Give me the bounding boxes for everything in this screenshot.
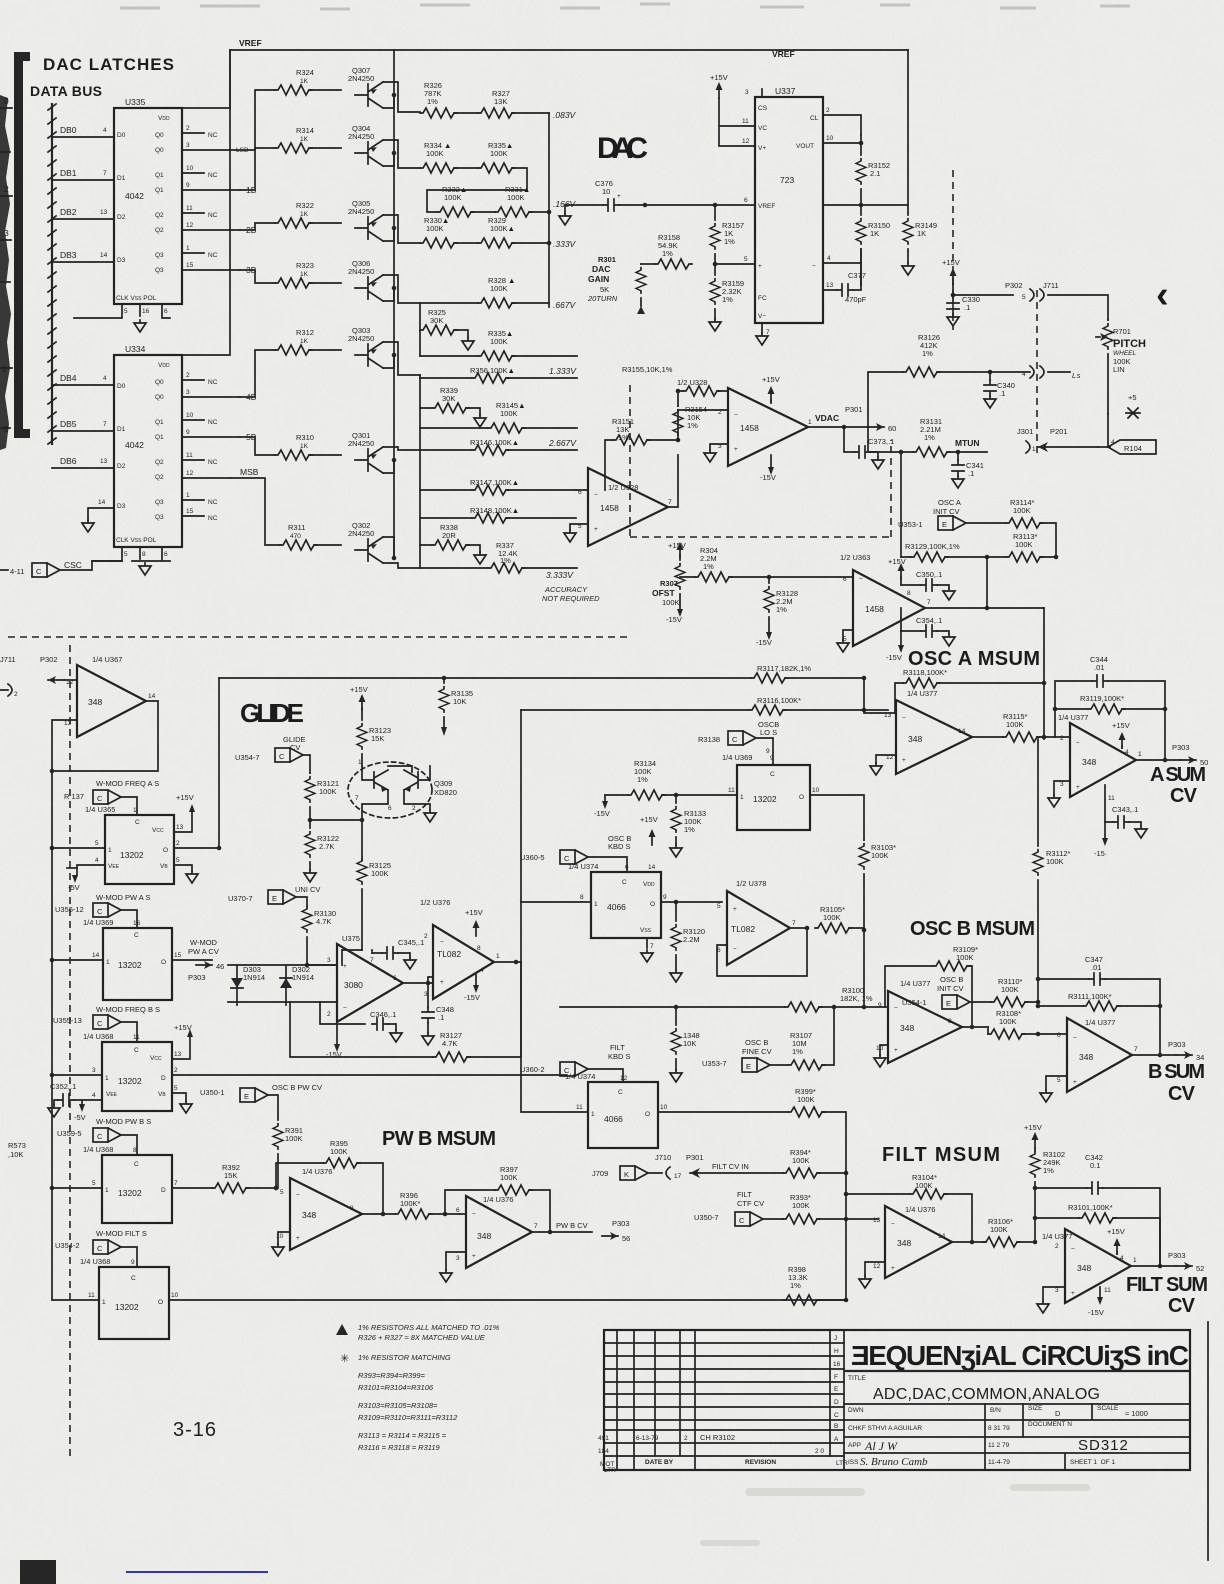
svg-text:R322: R322 [296, 201, 314, 210]
svg-text:1/4 U377: 1/4 U377 [1058, 713, 1088, 722]
wire U377d plus gnd [1043, 1287, 1065, 1301]
svg-text:TL082: TL082 [437, 949, 461, 959]
wire U376c out [952, 1241, 986, 1243]
capacitor C340 [989, 372, 991, 380]
svg-text:1: 1 [594, 901, 598, 908]
svg-text:SIZE: SIZE [1028, 1405, 1043, 1412]
wire oscb pw [268, 1095, 278, 1120]
svg-text:1: 1 [102, 1299, 106, 1306]
svg-text:D0: D0 [117, 383, 126, 390]
wire to P302 5 [953, 294, 1013, 296]
svg-text:13202: 13202 [118, 1076, 142, 1086]
svg-text:1: 1 [2, 364, 7, 374]
svg-text:D1: D1 [117, 175, 126, 182]
svg-text:Al J W: Al J W [864, 1439, 898, 1453]
svg-text:5: 5 [280, 1189, 284, 1196]
revision table [604, 1330, 844, 1470]
svg-text:6: 6 [744, 197, 748, 204]
wire C376 to VREF pin [619, 204, 715, 206]
svg-text:D1: D1 [117, 426, 126, 433]
resistor R3145A 100K [488, 423, 525, 433]
svg-text:2 0: 2 0 [815, 1448, 824, 1455]
svg-text:NC: NC [208, 252, 218, 259]
svg-text:20R: 20R [442, 531, 456, 540]
svg-text:R104: R104 [1124, 444, 1142, 453]
capacitor C341 [957, 452, 959, 460]
resistor R328A 100K [478, 298, 515, 308]
svg-text:B SUM: B SUM [1148, 1061, 1205, 1083]
resistor R3131 2.21M 1% [913, 447, 950, 457]
dashed connector lines [1036, 290, 1038, 455]
svg-text:U354-2: U354-2 [55, 1241, 80, 1250]
svg-text:12: 12 [873, 1263, 881, 1270]
op-amp U376a [290, 1178, 362, 1250]
svg-text:5: 5 [1022, 294, 1026, 301]
svg-text:2: 2 [186, 372, 190, 379]
wire Q304 emitter [383, 140, 420, 168]
capacitor C330 [947, 298, 959, 314]
svg-text:P201: P201 [1050, 427, 1068, 436]
svg-text:VDD: VDD [158, 362, 170, 369]
wire VOUT pin10 [823, 135, 861, 143]
svg-text:VEE: VEE [108, 863, 120, 870]
resistor R3151 13K 1% [613, 435, 650, 445]
svg-text:6: 6 [843, 576, 847, 583]
wire Q306 collector [383, 288, 394, 301]
wire R3103 node down [863, 930, 865, 1007]
svg-text:+: + [734, 446, 738, 453]
resistor R3118 100K [903, 678, 940, 688]
resistor R339 30K bridge [432, 403, 469, 413]
ground R3159 [709, 319, 721, 331]
svg-text:U370-7: U370-7 [228, 894, 253, 903]
svg-text:R3148,100K▲: R3148,100K▲ [470, 506, 519, 515]
wire U378 feedback [717, 928, 807, 976]
svg-text:INIT CV: INIT CV [937, 984, 964, 993]
svg-text:100K: 100K [871, 851, 889, 860]
wire VDAC out [808, 426, 868, 428]
svg-text:NC: NC [208, 499, 218, 506]
resistor R334A 100K [420, 163, 457, 173]
svg-text:J711: J711 [1043, 281, 1059, 290]
svg-text:2: 2 [684, 1435, 688, 1442]
resistor R3105 100K [815, 923, 852, 933]
svg-text:100K: 100K [500, 1173, 518, 1182]
resistor R3123 15K [357, 724, 367, 750]
svg-text:R324: R324 [296, 68, 314, 77]
wire + pin [715, 263, 755, 265]
svg-text:11: 11 [728, 787, 735, 794]
wire U377e in [1038, 1033, 1067, 1035]
svg-text:P303: P303 [188, 973, 206, 982]
svg-text:1%: 1% [427, 97, 438, 106]
svg-text:7: 7 [103, 421, 107, 428]
svg-text:-15V: -15V [756, 638, 772, 647]
svg-text:7: 7 [668, 499, 672, 506]
svg-text:FILT CV IN: FILT CV IN [712, 1162, 749, 1171]
svg-text:11: 11 [1104, 1287, 1111, 1294]
svg-text:B: B [834, 1423, 838, 1430]
svg-text:1%: 1% [687, 421, 698, 430]
svg-text:DB5: DB5 [60, 419, 77, 429]
transistor Q301 [355, 447, 383, 473]
svg-text:+15V: +15V [942, 258, 960, 267]
svg-text:.667V: .667V [553, 300, 577, 310]
svg-text:2: 2 [176, 840, 180, 847]
transistor pair Q309 XD820 [348, 762, 432, 818]
resistor R701 PITCH wheel [1103, 324, 1113, 350]
svg-text:APP: APP [848, 1442, 861, 1449]
resistor R399 100K [788, 1107, 825, 1117]
svg-text:0.1: 0.1 [1090, 1161, 1100, 1170]
wire Q307 emitter to ladder [383, 82, 420, 112]
power -15V C346 [336, 1024, 338, 1044]
wire U365 out to glide [174, 847, 219, 849]
svg-text:ADC,DAC,COMMON,ANALOG: ADC,DAC,COMMON,ANALOG [873, 1386, 1100, 1403]
summing column [548, 113, 550, 307]
svg-text:100K: 100K [792, 1201, 810, 1210]
resistor R3154 10K 1% [673, 410, 683, 436]
wire R3100 to pin9 [887, 1006, 889, 1008]
svg-text:W-MOD: W-MOD [190, 938, 218, 947]
svg-text:DB1: DB1 [60, 168, 77, 178]
svg-text:Q0: Q0 [155, 379, 164, 386]
svg-text:C: C [131, 1275, 136, 1282]
svg-text:2.2M: 2.2M [683, 935, 700, 944]
svg-text:+: + [1073, 1079, 1077, 1086]
svg-text:1: 1 [1133, 1257, 1137, 1264]
svg-text:U356-12: U356-12 [55, 905, 84, 914]
svg-text:11 2 79: 11 2 79 [988, 1442, 1010, 1449]
svg-text:3-16: 3-16 [173, 1419, 217, 1441]
top edge smudges [120, 4, 1130, 9]
svg-text:DATA BUS: DATA BUS [30, 83, 102, 99]
svg-text:.1: .1 [968, 469, 974, 478]
svg-text:2.667V: 2.667V [548, 438, 577, 448]
svg-text:FINE CV: FINE CV [742, 1047, 772, 1056]
svg-text:VB: VB [158, 1091, 166, 1098]
svg-text:2: 2 [1055, 1243, 1059, 1250]
capacitor C348 [422, 1007, 434, 1023]
svg-text:R3111,100K*: R3111,100K* [1068, 992, 1112, 1001]
svg-text:4-11: 4-11 [10, 567, 24, 576]
svg-text:1K: 1K [917, 229, 926, 238]
resistor R329 100KA [478, 238, 515, 248]
wire U376b out [532, 1231, 592, 1233]
svg-text:13: 13 [826, 282, 834, 289]
svg-text:10: 10 [186, 165, 194, 172]
op-amp U378 TL082 [727, 891, 790, 965]
svg-text:NC: NC [208, 515, 218, 522]
svg-text:1%: 1% [792, 1047, 803, 1056]
svg-text:6: 6 [625, 864, 629, 871]
svg-text:11: 11 [186, 205, 193, 212]
svg-text:8 31 79: 8 31 79 [988, 1425, 1010, 1432]
svg-text:348: 348 [897, 1238, 911, 1248]
wire U366 in pin14 [52, 959, 103, 961]
IC U368c 13202 [99, 1267, 169, 1339]
svg-text:P302: P302 [1005, 281, 1023, 290]
svg-text:100K: 100K [915, 1181, 933, 1190]
svg-text:4: 4 [1125, 749, 1129, 756]
resistor R3148 100KA [472, 513, 509, 523]
resistor R3150 1K [856, 219, 866, 245]
svg-text:13202: 13202 [115, 1302, 139, 1312]
svg-text:E: E [834, 1386, 839, 1393]
transistor Q304 [355, 140, 383, 166]
svg-text:GAIN: GAIN [588, 274, 609, 284]
svg-text:+: + [1076, 784, 1080, 791]
svg-text:1/4 U369: 1/4 U369 [83, 918, 113, 927]
long rail to OSCB stage [560, 1006, 785, 1008]
svg-text:11: 11 [742, 118, 749, 125]
svg-text:11: 11 [88, 1292, 95, 1299]
op-amp U328b VDAC stage [728, 388, 808, 466]
wire LSB to R324 [230, 90, 275, 150]
resistor R3129 100K 1% [911, 552, 948, 562]
svg-text:348: 348 [477, 1231, 491, 1241]
svg-text:348: 348 [1077, 1263, 1091, 1273]
glide box wire [218, 678, 220, 848]
wire C376 left + ground [565, 205, 603, 213]
svg-text:4.7K: 4.7K [442, 1039, 457, 1048]
svg-text:GLIDE: GLIDE [240, 698, 304, 728]
svg-text:FILT: FILT [610, 1043, 625, 1052]
svg-text:+15V: +15V [174, 1023, 192, 1032]
svg-text:100K: 100K [490, 337, 508, 346]
wire U368a out long rail [172, 1074, 566, 1076]
svg-text:1%: 1% [684, 825, 695, 834]
svg-text:6: 6 [1057, 1032, 1061, 1039]
wire Q302 collector [383, 537, 394, 558]
title block frame [604, 1330, 1190, 1470]
svg-text:R3113 = R3114 = R3115 =: R3113 = R3114 = R3115 = [358, 1431, 447, 1440]
svg-text:REVISION: REVISION [745, 1459, 776, 1466]
wheel symbol [1126, 408, 1140, 418]
svg-text:1K: 1K [300, 443, 309, 450]
svg-text:DAC LATCHES: DAC LATCHES [43, 55, 175, 74]
svg-text:10: 10 [660, 1104, 668, 1111]
svg-text:Q3: Q3 [155, 252, 164, 259]
svg-text:16: 16 [133, 920, 141, 927]
svg-text:15: 15 [174, 952, 182, 959]
svg-text:+: + [902, 757, 906, 764]
svg-text:13202: 13202 [118, 960, 142, 970]
collector bus [393, 50, 395, 558]
svg-text:1/4 U377: 1/4 U377 [1085, 1018, 1115, 1027]
wire U377d out [1131, 1265, 1176, 1267]
transistor Q307 [355, 82, 383, 108]
svg-text:Q0: Q0 [155, 394, 164, 401]
svg-text:15: 15 [186, 262, 194, 269]
resistor R332A 100K [437, 207, 474, 217]
svg-text:10: 10 [602, 187, 610, 196]
data bus (hatched) [51, 103, 53, 445]
svg-text:Q1: Q1 [155, 434, 164, 441]
svg-text:B/N: B/N [990, 1407, 1001, 1414]
wire Q307 collector [383, 95, 394, 108]
svg-text:Q1: Q1 [155, 172, 164, 179]
power -15V U377c [1104, 822, 1106, 838]
resistor R3113 100K [1006, 552, 1043, 562]
svg-text:−: − [891, 1221, 895, 1228]
svg-text:PW B MSUM: PW B MSUM [382, 1128, 496, 1150]
wire U365 in pin5 [52, 847, 105, 849]
wire 723 pin4 [823, 262, 861, 264]
svg-text:Q2: Q2 [155, 212, 164, 219]
svg-text:NOT REQUIRED: NOT REQUIRED [542, 594, 600, 603]
svg-text:INIT CV: INIT CV [933, 507, 960, 516]
svg-text:1K: 1K [300, 211, 309, 218]
svg-text:7: 7 [927, 599, 931, 606]
wire DB5 [52, 430, 114, 432]
svg-text:R312: R312 [296, 328, 314, 337]
svg-text:F: F [834, 1374, 838, 1381]
svg-text:100K: 100K [330, 1147, 348, 1156]
svg-text:2N4250: 2N4250 [348, 207, 374, 216]
svg-text:A: A [834, 1436, 839, 1443]
svg-text:−: − [343, 1005, 347, 1012]
svg-text:−: − [440, 939, 444, 946]
svg-text:VREF: VREF [239, 38, 262, 48]
svg-text:R393=R394=R399=: R393=R394=R399= [358, 1371, 426, 1380]
svg-text:VC: VC [758, 125, 767, 132]
wire U377c plus gnd [1054, 781, 1070, 795]
svg-text:P303: P303 [1172, 743, 1190, 752]
svg-text:3: 3 [424, 991, 428, 998]
resistor R3159 2.32K 1% [710, 279, 720, 305]
wire VREF pin6 [715, 204, 755, 206]
svg-text:W-MOD PW B S: W-MOD PW B S [96, 1117, 151, 1126]
svg-text:OSC B: OSC B [940, 975, 963, 984]
svg-text:CV: CV [1170, 785, 1198, 807]
svg-text:13: 13 [176, 824, 184, 831]
wire Q301 collector [383, 460, 394, 473]
svg-text:R323: R323 [296, 261, 314, 270]
svg-text:11: 11 [186, 452, 193, 459]
svg-text:14: 14 [98, 499, 106, 506]
wire U368c in pin11 [52, 1299, 99, 1301]
svg-text:2: 2 [14, 691, 18, 698]
svg-text:7: 7 [103, 170, 107, 177]
svg-text:U375: U375 [342, 934, 360, 943]
svg-text:1N914: 1N914 [243, 973, 265, 982]
svg-text:O: O [161, 959, 166, 966]
svg-text:1% RESISTOR MATCHING: 1% RESISTOR MATCHING [358, 1353, 451, 1362]
wire 2B to R322 [240, 223, 275, 230]
svg-text:−: − [1073, 1035, 1077, 1042]
svg-text:723: 723 [780, 175, 794, 185]
input CSC [0, 569, 8, 571]
ground R339 [474, 415, 486, 427]
svg-text:+15V: +15V [1112, 721, 1130, 730]
svg-text:R 137: R 137 [64, 792, 84, 801]
svg-text:-5V: -5V [68, 883, 80, 892]
wire R701 bottom to P201 [1107, 414, 1109, 447]
svg-text:7: 7 [792, 920, 796, 927]
svg-text:R3109=R3110=R3111=R3112: R3109=R3110=R3111=R3112 [358, 1413, 458, 1422]
svg-text:NC: NC [208, 379, 218, 386]
svg-text:+: + [1071, 1290, 1075, 1297]
svg-text:OSC A MSUM: OSC A MSUM [908, 648, 1040, 670]
svg-text:U359-5: U359-5 [57, 1129, 82, 1138]
resistor R3135 10K [442, 676, 447, 681]
resistor R3117 182K 1% [751, 673, 788, 683]
wire U376a plus gnd [278, 1232, 290, 1244]
wire U368b out [172, 1187, 212, 1189]
svg-text:1/4 U369: 1/4 U369 [722, 753, 752, 762]
U334 NC stubs [182, 380, 204, 516]
op-amp U375 3080 [337, 944, 403, 1022]
wire CSC to U334 [60, 561, 122, 570]
wire U377a in [864, 710, 896, 763]
svg-text:1%: 1% [924, 433, 935, 442]
svg-text:2N4250: 2N4250 [348, 529, 374, 538]
svg-text:V+: V+ [758, 145, 766, 152]
svg-text:‹: ‹ [1156, 274, 1169, 316]
svg-text:UNI CV: UNI CV [295, 885, 320, 894]
resistor R3122 2.7K [305, 832, 315, 858]
svg-text:100K: 100K [371, 869, 389, 878]
wire U369 in pin11 [736, 794, 738, 796]
svg-text:3: 3 [327, 957, 331, 964]
wire Q303 collector [383, 355, 394, 368]
svg-text:.01: .01 [1094, 663, 1104, 672]
resistor R324 1K [275, 85, 312, 95]
svg-text:C: C [135, 819, 140, 826]
svg-text:4: 4 [827, 255, 831, 262]
svg-text:Q2: Q2 [155, 474, 164, 481]
svg-text:470: 470 [290, 533, 301, 540]
svg-text:D2: D2 [117, 463, 126, 470]
svg-text:VCC: VCC [152, 827, 164, 834]
capacitor C373 [844, 427, 854, 452]
svg-text:NC: NC [208, 459, 218, 466]
svg-text:+: + [894, 1047, 898, 1054]
resistor R3146 100KA [472, 445, 509, 455]
wire 3080 inputs [307, 965, 337, 1002]
wire DB1 [52, 179, 114, 181]
svg-text:1: 1 [1138, 751, 1142, 758]
svg-text:1/4 U368: 1/4 U368 [83, 1032, 113, 1041]
svg-text:56: 56 [622, 1234, 630, 1243]
svg-text:C: C [134, 932, 139, 939]
svg-text:SCALE: SCALE [1097, 1405, 1119, 1412]
svg-text:1/4 U377: 1/4 U377 [900, 979, 930, 988]
svg-text:1K: 1K [870, 229, 879, 238]
wire vert to lower rail [520, 710, 522, 962]
svg-text:1N914: 1N914 [292, 973, 314, 982]
svg-text:100K: 100K [507, 193, 525, 202]
svg-text:+15V: +15V [1107, 1227, 1125, 1236]
svg-text:10: 10 [812, 787, 820, 794]
IC U368a 13202 [102, 1042, 172, 1111]
resistor R337 12.4K [488, 563, 525, 573]
svg-text:VREF: VREF [772, 49, 795, 59]
svg-text:P303: P303 [1168, 1040, 1186, 1049]
svg-text:14: 14 [148, 693, 156, 700]
wire to connector pair 4 [990, 371, 1030, 373]
svg-text:P301: P301 [686, 1153, 704, 1162]
svg-text:R311: R311 [288, 523, 305, 532]
svg-text:7: 7 [650, 943, 654, 950]
svg-text:9: 9 [186, 429, 190, 436]
svg-text:R314: R314 [296, 126, 314, 135]
wire rail FREQ A upper [219, 677, 751, 679]
svg-text:OSC A: OSC A [938, 498, 961, 507]
op-amp U376 TL082 [433, 925, 494, 999]
resistor R3127 4.7K [433, 1052, 470, 1062]
